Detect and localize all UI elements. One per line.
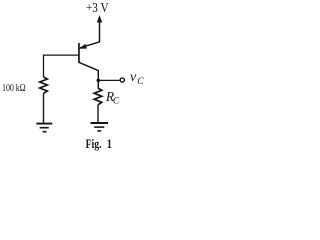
- wire left branch vertical (base node down to resistor): [43, 55, 45, 78]
- caption Fig. 1: [86, 137, 113, 151]
- wire output horizontal: [98, 79, 120, 81]
- wire right branch lower vertical: [97, 105, 99, 123]
- wire collector vertical: [97, 70, 99, 89]
- wire collector lead diagonal: [79, 63, 98, 71]
- value label 100 kOhm: [2, 82, 26, 93]
- svg-text:C: C: [137, 77, 144, 87]
- svg-text:1: 1: [107, 137, 112, 151]
- svg-text:v: v: [130, 70, 137, 85]
- ground (right): [91, 123, 109, 131]
- resistor RC: [94, 88, 102, 105]
- svg-text:100 kΩ: 100 kΩ: [2, 82, 26, 93]
- svg-text:+3 V: +3 V: [86, 0, 109, 15]
- node collector junction dot: [97, 79, 101, 83]
- svg-text:C: C: [113, 96, 120, 106]
- transistor Q1 (PNP): emitter arrowhead and base bar: [78, 43, 87, 63]
- svg-text:Fig.: Fig.: [86, 138, 102, 152]
- resistor R1 100 kOhm: [40, 77, 48, 93]
- wire base lead: [44, 54, 79, 56]
- label vC output node: [130, 70, 144, 87]
- wire emitter lead (supply corner to transistor): [80, 42, 100, 48]
- terminal vC open circle: [120, 78, 124, 82]
- label +3 V supply: [86, 0, 109, 15]
- ground (left): [36, 124, 52, 132]
- power supply +3V arrow: [97, 15, 102, 42]
- wire left branch lower vertical: [43, 93, 45, 123]
- label RC: [105, 89, 120, 106]
